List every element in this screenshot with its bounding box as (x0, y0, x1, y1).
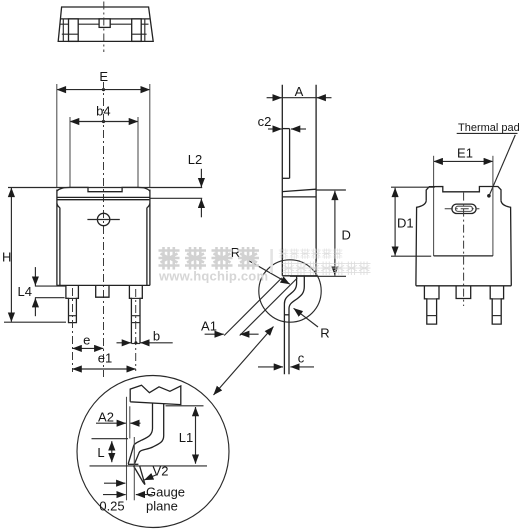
lead centerlines (72, 288, 74, 372)
body bottom + ext (282, 275, 316, 277)
top view inner verticals (62, 19, 64, 42)
side back face (315, 85, 317, 277)
body top line B (58, 199, 150, 201)
svg-text:H: H (2, 249, 11, 264)
svg-text:V2: V2 (153, 463, 169, 478)
side front face (281, 85, 283, 276)
svg-text:D: D (342, 228, 351, 243)
banner break-off (130, 385, 181, 404)
thermal pad obround (452, 204, 476, 213)
svg-text:L1: L1 (179, 430, 193, 445)
svg-text:c: c (298, 351, 305, 366)
body bottom (57, 284, 150, 286)
vertical line3 (gauge plane) (133, 437, 135, 500)
svg-text:A: A (295, 84, 304, 99)
top view center lead rect (99, 19, 110, 28)
body side edges (59, 208, 61, 286)
svg-text:D1: D1 (397, 216, 414, 231)
tab back face (289, 129, 291, 179)
svg-text:b: b (153, 329, 160, 344)
svg-text:E1: E1 (457, 146, 473, 161)
body chamfers (57, 203, 60, 207)
back outline top (426, 187, 501, 201)
watermark divider (270, 249, 273, 273)
svg-text:e: e (83, 333, 90, 348)
tab edges / E1 extensions (433, 156, 435, 256)
tab side edges (56, 190, 58, 286)
top view right lead rect (132, 19, 142, 42)
svg-text:A1: A1 (201, 318, 217, 333)
svg-text:e1: e1 (98, 351, 112, 366)
right lead (129, 285, 142, 343)
body top line2 (282, 196, 316, 198)
back right lead (490, 286, 503, 324)
top view centerline (103, 2, 105, 53)
tab top tick (282, 128, 289, 130)
tab top profile (57, 187, 150, 191)
svg-text:A2: A2 (98, 410, 114, 425)
back left lead (424, 286, 439, 324)
top view mid line segments (60, 23, 148, 25)
svg-text:E: E (99, 69, 108, 84)
watermark small row1 (279, 249, 343, 259)
vertical line2 (A2 ext) (129, 406, 131, 438)
D top extension (316, 189, 346, 191)
connector arrow to detail (214, 327, 274, 396)
back outline right lower (501, 201, 511, 286)
seating plane line (90, 465, 208, 467)
small detail circle (259, 260, 321, 322)
tab bottom (434, 255, 493, 257)
svg-text:www.hqchip.com: www.hqchip.com (158, 269, 268, 284)
H top extension line (8, 187, 202, 189)
lead S-bend side (284, 276, 296, 375)
back center lead stub (456, 286, 471, 299)
watermark small row2 (282, 262, 370, 276)
body top slant (282, 189, 316, 191)
svg-text:L4: L4 (18, 284, 32, 299)
toe below seating (133, 466, 143, 483)
svg-text:Thermal pad: Thermal pad (458, 122, 520, 134)
svg-text:L2: L2 (188, 152, 202, 167)
svg-text:0.25: 0.25 (99, 499, 124, 514)
0.25 arrows (104, 482, 125, 484)
tab bottom line A (57, 196, 150, 198)
L2 bottom extension line (150, 197, 202, 199)
foot bottom tick (128, 463, 138, 465)
top view left lead rect (69, 19, 79, 42)
A1 oblique extensions (224, 278, 282, 336)
svg-text:c2: c2 (258, 114, 272, 129)
svg-text:plane: plane (146, 499, 178, 514)
vertical line1 (lead face ext) (126, 397, 128, 501)
foot tick (284, 314, 289, 316)
center lead stub (96, 285, 109, 297)
back outline left lower (416, 201, 426, 286)
mounting hole (97, 213, 109, 225)
left lead (66, 285, 79, 322)
top view cell ticks (62, 33, 147, 35)
top view outline (58, 7, 153, 41)
front centerline (103, 82, 105, 377)
top view step line (61, 18, 150, 20)
tab step tick (282, 177, 289, 179)
back body bottom (416, 285, 511, 287)
watermark big chars (159, 247, 260, 270)
back centerline (463, 193, 465, 306)
H bottom extension (4, 321, 66, 323)
svg-text:Gauge: Gauge (146, 485, 185, 500)
detail lead outline left face (128, 404, 152, 464)
svg-text:L: L (97, 445, 104, 460)
detail lead outline right face (134, 404, 164, 465)
svg-text:R: R (320, 326, 329, 341)
